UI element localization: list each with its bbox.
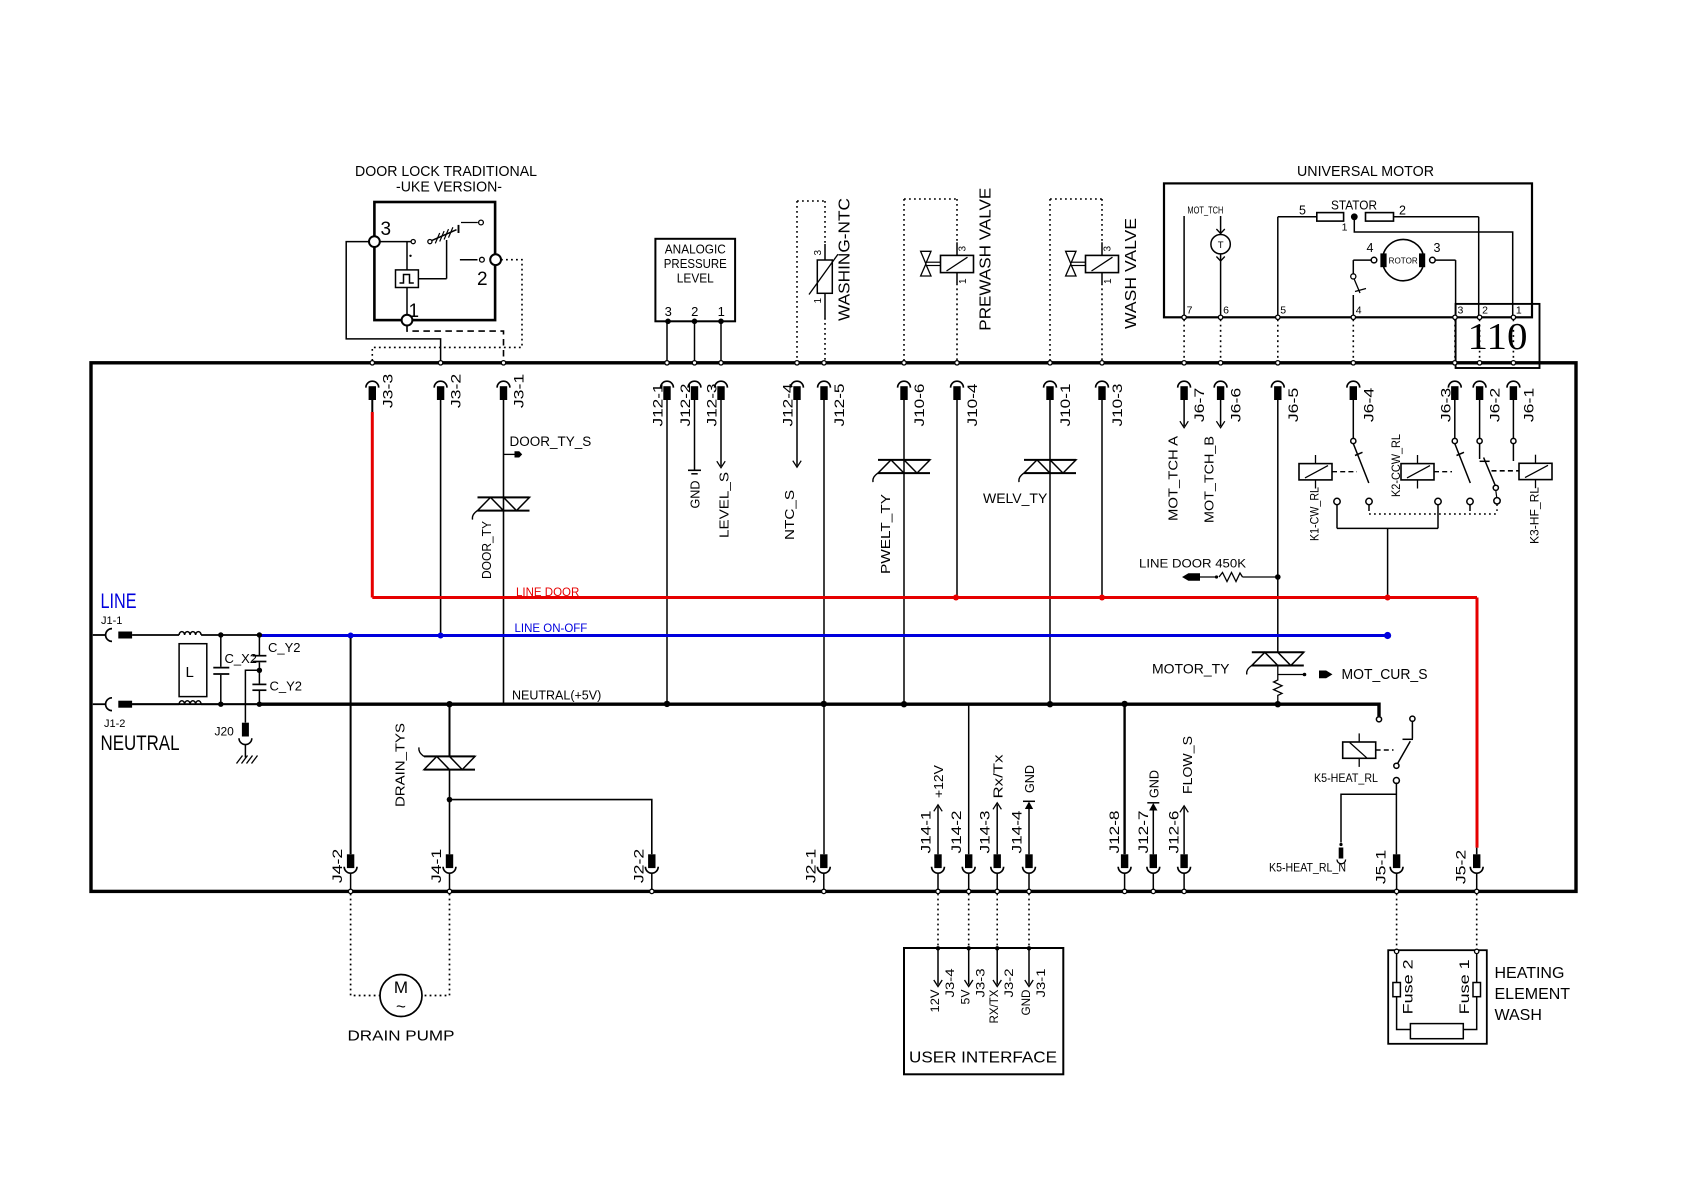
svg-text:J12-2: J12-2 — [677, 383, 693, 426]
svg-text:K2-CCW_RL: K2-CCW_RL — [1391, 433, 1403, 497]
svg-text:3: 3 — [665, 304, 672, 319]
svg-text:~: ~ — [396, 997, 406, 1016]
svg-text:LINE ON-OFF: LINE ON-OFF — [515, 623, 588, 635]
svg-text:J6-2: J6-2 — [1487, 388, 1503, 423]
svg-text:GND: GND — [1023, 765, 1037, 793]
svg-text:J14-3: J14-3 — [977, 810, 993, 853]
svg-text:LINE DOOR: LINE DOOR — [516, 587, 579, 599]
svg-text:LINE: LINE — [101, 590, 137, 613]
svg-text:MOT_TCH: MOT_TCH — [1187, 205, 1223, 217]
svg-text:110: 110 — [1468, 316, 1528, 358]
svg-text:DOOR_TY_S: DOOR_TY_S — [510, 434, 592, 449]
svg-text:FLOW_S: FLOW_S — [1181, 736, 1195, 794]
svg-text:K1-CW_RL: K1-CW_RL — [1310, 486, 1322, 541]
svg-text:J3-3: J3-3 — [974, 968, 988, 997]
svg-text:DRAIN_TYS: DRAIN_TYS — [394, 723, 408, 807]
svg-text:MOT_CUR_S: MOT_CUR_S — [1342, 667, 1428, 683]
svg-text:J3-2: J3-2 — [1002, 968, 1016, 997]
svg-text:2: 2 — [1482, 305, 1488, 317]
svg-text:USER INTERFACE: USER INTERFACE — [909, 1050, 1057, 1067]
svg-text:J2-2: J2-2 — [630, 849, 646, 884]
svg-text:5: 5 — [1299, 204, 1306, 218]
svg-text:Rx/Tx: Rx/Tx — [992, 753, 1006, 798]
svg-text:1: 1 — [813, 298, 824, 304]
svg-text:1: 1 — [1342, 222, 1348, 234]
svg-text:J14-2: J14-2 — [948, 810, 964, 853]
svg-text:2: 2 — [1399, 204, 1406, 218]
svg-text:PWELT_TY: PWELT_TY — [879, 493, 893, 574]
svg-text:2: 2 — [691, 304, 698, 319]
svg-text:1: 1 — [1516, 305, 1522, 317]
svg-text:J6-5: J6-5 — [1285, 388, 1301, 423]
svg-text:MOTOR_TY: MOTOR_TY — [1152, 661, 1230, 677]
svg-text:L: L — [186, 664, 194, 681]
svg-text:WELV_TY: WELV_TY — [983, 490, 1048, 506]
svg-text:J12-3: J12-3 — [704, 383, 720, 426]
svg-text:PREWASH VALVE: PREWASH VALVE — [977, 188, 994, 331]
svg-text:M: M — [394, 978, 408, 997]
svg-text:J3-3: J3-3 — [379, 374, 395, 409]
svg-text:J12-8: J12-8 — [1106, 810, 1122, 853]
svg-text:PRESSURE: PRESSURE — [664, 257, 727, 271]
svg-text:+12V: +12V — [932, 764, 946, 798]
svg-text:12V: 12V — [928, 990, 942, 1013]
svg-text:3: 3 — [1434, 241, 1441, 255]
svg-text:3: 3 — [1103, 246, 1114, 252]
svg-text:5V: 5V — [959, 990, 973, 1005]
svg-text:J3-2: J3-2 — [448, 374, 464, 409]
svg-text:J3-1: J3-1 — [511, 374, 527, 409]
svg-text:6: 6 — [1223, 305, 1229, 317]
svg-text:C_Y2: C_Y2 — [270, 679, 303, 694]
svg-text:K5-HEAT_RL_N: K5-HEAT_RL_N — [1269, 863, 1346, 875]
svg-text:T: T — [1218, 240, 1224, 251]
svg-text:J12-5: J12-5 — [831, 383, 847, 426]
svg-text:WASH: WASH — [1495, 1007, 1542, 1024]
svg-text:NTC_S: NTC_S — [783, 490, 797, 540]
svg-text:NEUTRAL: NEUTRAL — [101, 732, 180, 755]
svg-text:J6-3: J6-3 — [1437, 388, 1453, 423]
svg-text:-UKE VERSION-: -UKE VERSION- — [396, 179, 502, 196]
svg-text:J10-3: J10-3 — [1109, 383, 1125, 426]
svg-text:J5-1: J5-1 — [1373, 850, 1389, 885]
svg-text:J14-4: J14-4 — [1008, 810, 1024, 853]
svg-text:MOT_TCH_B: MOT_TCH_B — [1203, 436, 1217, 523]
svg-text:J1-1: J1-1 — [101, 615, 122, 627]
svg-text:5: 5 — [1280, 305, 1286, 317]
svg-text:J4-1: J4-1 — [428, 849, 444, 884]
svg-text:4: 4 — [1356, 305, 1362, 317]
svg-text:1: 1 — [409, 301, 420, 322]
svg-text:J6-6: J6-6 — [1228, 388, 1244, 423]
svg-text:J10-4: J10-4 — [964, 383, 980, 426]
svg-text:J20: J20 — [215, 725, 235, 739]
svg-text:J5-2: J5-2 — [1453, 850, 1469, 885]
svg-text:DRAIN PUMP: DRAIN PUMP — [348, 1029, 455, 1045]
svg-text:RX/TX: RX/TX — [987, 990, 1001, 1024]
svg-text:K5-HEAT_RL: K5-HEAT_RL — [1314, 771, 1378, 785]
svg-text:J2-1: J2-1 — [802, 849, 818, 884]
svg-text:STATOR: STATOR — [1331, 199, 1377, 213]
svg-text:2: 2 — [477, 269, 488, 290]
svg-text:GND: GND — [689, 481, 703, 509]
svg-text:Fuse 1: Fuse 1 — [1457, 959, 1472, 1014]
svg-text:C_Y2: C_Y2 — [268, 640, 301, 655]
svg-text:J3-1: J3-1 — [1034, 968, 1048, 997]
svg-text:LINE DOOR 450K: LINE DOOR 450K — [1139, 559, 1246, 571]
svg-text:DOOR LOCK TRADITIONAL: DOOR LOCK TRADITIONAL — [355, 163, 537, 180]
svg-text:NEUTRAL(+5V): NEUTRAL(+5V) — [512, 689, 601, 703]
svg-text:WASH VALVE: WASH VALVE — [1123, 218, 1140, 329]
svg-text:MOT_TCH A: MOT_TCH A — [1167, 435, 1181, 521]
svg-text:WASHING-NTC: WASHING-NTC — [837, 198, 854, 321]
svg-text:J6-4: J6-4 — [1360, 388, 1376, 423]
svg-text:J12-6: J12-6 — [1166, 810, 1182, 853]
svg-text:1: 1 — [1103, 278, 1114, 284]
svg-text:J12-1: J12-1 — [650, 383, 666, 426]
svg-text:ANALOGIC: ANALOGIC — [665, 243, 726, 257]
svg-text:GND: GND — [1148, 770, 1162, 798]
svg-text:J1-2: J1-2 — [104, 718, 125, 730]
svg-text:GND: GND — [1019, 989, 1033, 1015]
svg-text:J3-4: J3-4 — [943, 968, 957, 997]
svg-text:J14-1: J14-1 — [917, 810, 933, 853]
svg-text:HEATING: HEATING — [1495, 965, 1565, 982]
svg-text:ELEMENT: ELEMENT — [1495, 986, 1571, 1003]
svg-text:1: 1 — [718, 304, 725, 319]
svg-text:LEVEL_S: LEVEL_S — [718, 472, 732, 538]
svg-text:3: 3 — [381, 219, 392, 240]
svg-text:UNIVERSAL MOTOR: UNIVERSAL MOTOR — [1297, 163, 1434, 180]
svg-text:1: 1 — [958, 278, 969, 284]
svg-text:LEVEL: LEVEL — [677, 272, 714, 286]
svg-text:K3-HF_RL: K3-HF_RL — [1530, 486, 1542, 544]
svg-text:C_X2: C_X2 — [225, 651, 258, 666]
svg-text:DOOR_TY: DOOR_TY — [480, 520, 494, 579]
svg-text:J6-1: J6-1 — [1520, 388, 1536, 423]
svg-text:ROTOR: ROTOR — [1389, 257, 1418, 266]
svg-text:Fuse 2: Fuse 2 — [1401, 959, 1416, 1014]
svg-text:3: 3 — [958, 246, 969, 252]
svg-text:J12-7: J12-7 — [1135, 810, 1151, 853]
svg-text:3: 3 — [813, 250, 824, 256]
svg-text:J10-6: J10-6 — [911, 383, 927, 426]
svg-text:7: 7 — [1187, 305, 1193, 317]
svg-text:3: 3 — [1458, 305, 1464, 317]
svg-text:4: 4 — [1367, 241, 1374, 255]
svg-text:J6-7: J6-7 — [1191, 388, 1207, 423]
svg-text:J10-1: J10-1 — [1057, 383, 1073, 426]
svg-text:J4-2: J4-2 — [329, 849, 345, 884]
svg-text:J12-4: J12-4 — [780, 383, 796, 426]
